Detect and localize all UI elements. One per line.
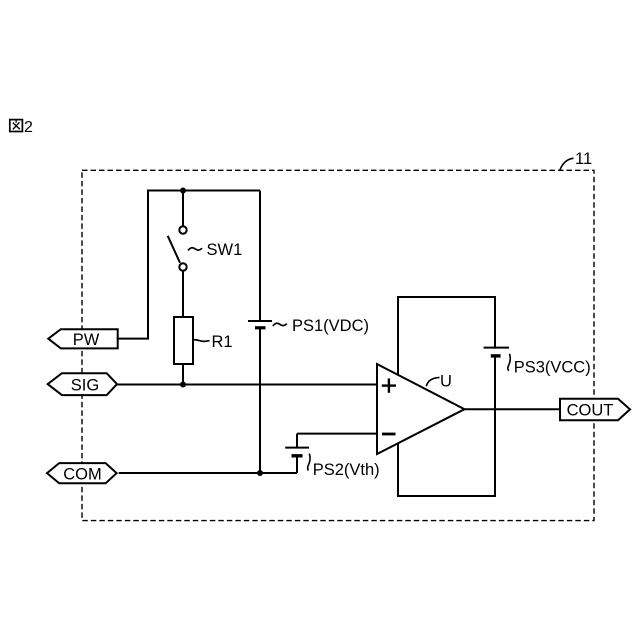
svg-text:COUT: COUT	[567, 401, 614, 419]
svg-text:R1: R1	[212, 333, 233, 351]
svg-text:11: 11	[575, 150, 592, 168]
svg-text:COM: COM	[63, 466, 102, 484]
svg-text:PS3(VCC): PS3(VCC)	[514, 359, 591, 377]
svg-text:U: U	[440, 373, 452, 391]
svg-text:PS1(VDC): PS1(VDC)	[292, 317, 369, 335]
svg-text:2: 2	[24, 119, 33, 136]
svg-text:SW1: SW1	[207, 241, 243, 259]
svg-text:SIG: SIG	[71, 377, 99, 395]
svg-text:PW: PW	[73, 331, 100, 349]
svg-text:PS2(Vth): PS2(Vth)	[313, 461, 380, 479]
